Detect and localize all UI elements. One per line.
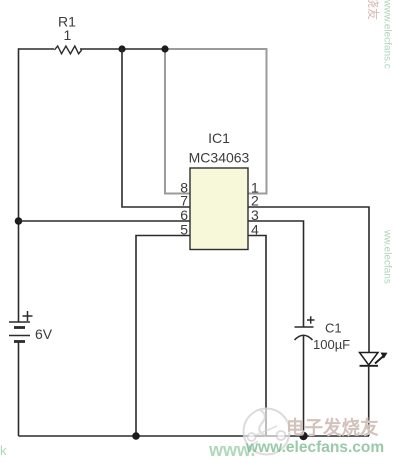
battery BT1 6V	[9, 311, 53, 342]
watermark logo circle	[244, 409, 290, 455]
node C: junction dot on left rail at pin 6 wire	[15, 217, 23, 225]
node D: junction dot bottom rail at pin5 wire	[132, 432, 140, 440]
svg-text:www.elecfans.c: www.elecfans.c	[382, 0, 393, 69]
wire: top rail black from left rail to node B	[19, 48, 55, 50]
wire: pin 6 to left rail	[19, 220, 191, 222]
svg-text:MC34063: MC34063	[189, 150, 250, 166]
wire: gray from node B down to pin 8	[165, 49, 190, 194]
svg-text:IC1: IC1	[208, 130, 230, 146]
wire: battery bottom to bottom rail	[18, 342, 20, 437]
LED D1	[360, 353, 388, 366]
wire: node A down to pin 7	[122, 49, 190, 207]
svg-text:100µF: 100µF	[313, 337, 350, 352]
wire: capacitor bottom to bottom rail	[303, 336, 305, 436]
svg-text:1: 1	[64, 27, 72, 43]
svg-text:www.elecfans.com: www.elecfans.com	[245, 439, 384, 456]
resistor R1	[55, 14, 82, 54]
wire: top rail black from resistor to node B	[80, 48, 165, 50]
wire: gray top segment node B to top-right corner	[165, 49, 267, 194]
wire: pin 3 right then down to capacitor C1	[248, 221, 304, 327]
svg-text:烧友: 烧友	[366, 0, 380, 20]
node E: junction dot bottom rail at capacitor	[299, 432, 307, 440]
wire: pin 5 left then down to bottom rail	[136, 236, 190, 437]
op-amp IC1 MC34063 body	[189, 130, 250, 250]
wire: pin 4 right then down to bottom rail	[248, 236, 266, 437]
svg-text:电子发烧友: 电子发烧友	[286, 417, 379, 438]
node B: junction dot on top rail	[161, 45, 168, 52]
node A: junction dot on top rail	[118, 45, 125, 52]
svg-text:C1: C1	[325, 321, 342, 336]
svg-text:ww.elecfans: ww.elecfans	[382, 229, 393, 284]
wire: pin 2 right then down to LED	[248, 207, 369, 352]
wire: LED cathode down to bottom rail	[368, 366, 370, 436]
capacitor C1 100uF	[295, 316, 351, 352]
svg-text:4: 4	[251, 222, 259, 238]
wire: left rail from top corner down to battery top	[18, 48, 20, 322]
svg-text:6V: 6V	[35, 326, 53, 342]
svg-text:k: k	[0, 443, 7, 458]
svg-text:5: 5	[180, 222, 188, 238]
wire: bottom rail	[19, 435, 370, 437]
